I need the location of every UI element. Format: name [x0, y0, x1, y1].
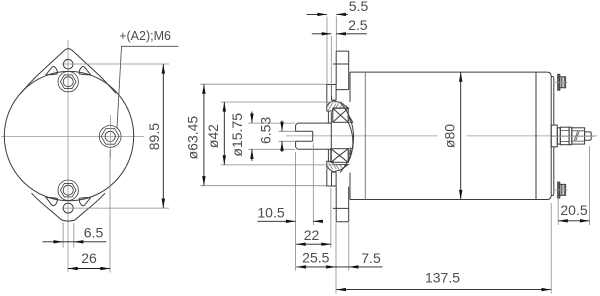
- dim phi80: [442, 72, 463, 199]
- svg-text:ø42: ø42: [205, 124, 221, 148]
- body rear seam: [535, 72, 537, 199]
- ext line slot end: [312, 143, 314, 225]
- dim 89.5 line: [162, 64, 164, 208]
- top wedge hatch: [348, 114, 353, 122]
- dim 6.5 extension lines: [62, 223, 64, 248]
- bottom ear left slot: [46, 198, 57, 206]
- svg-text:6.53: 6.53: [258, 117, 274, 144]
- bottom ear right slot: [79, 198, 90, 206]
- rear cap rim: [551, 77, 554, 196]
- flange plate top ear: [333, 51, 349, 64]
- top pilot hole: [63, 59, 73, 69]
- dim 26 extension right: [109, 150, 111, 273]
- dim phi15.75: [229, 112, 254, 161]
- svg-text:+(A2);M6: +(A2);M6: [119, 29, 171, 43]
- dim 6.53 extensions: [279, 130, 296, 132]
- side view centerline: [286, 135, 438, 137]
- dim 10.5: [257, 205, 323, 223]
- flange hub top face: [327, 85, 336, 124]
- dim phi42: [205, 102, 226, 165]
- bottom hex bolt: [58, 180, 78, 200]
- dim 5.5: [307, 0, 369, 16]
- dim 89.5 extension bottom: [62, 207, 170, 209]
- terminal vertical centerline: [110, 115, 112, 158]
- terminal hex nut (A2): [99, 125, 121, 147]
- ext line hub step below: [330, 188, 332, 248]
- dome outer arc: [340, 102, 354, 172]
- dim 26 line: [68, 268, 110, 270]
- ext line plate front below: [335, 223, 337, 294]
- bottom chamfer hatch band: [327, 161, 348, 171]
- dim 2.5: [312, 17, 368, 36]
- ext lines 20.5: [557, 198, 559, 226]
- svg-text:ø80: ø80: [442, 124, 458, 148]
- dim 6.53: [258, 117, 284, 153]
- dim 26 arrows: [68, 267, 78, 270]
- bottom mounting ear outline: [32, 193, 106, 221]
- dim phi15.75 extensions: [248, 122, 295, 124]
- svg-text:7.5: 7.5: [361, 250, 381, 266]
- dim 137.5: [336, 270, 551, 292]
- leader line for label: [117, 46, 179, 128]
- ext line hub step face: [330, 36, 332, 96]
- bottom bearing block: [331, 149, 348, 163]
- flange plate bottom tab: [333, 208, 349, 221]
- ext line plate rear below: [348, 223, 350, 271]
- flange plate right edge: [336, 51, 349, 222]
- motor body outline: [350, 72, 551, 199]
- svg-text:ø63.45: ø63.45: [185, 116, 201, 160]
- dim 89.5 extension top: [62, 63, 170, 65]
- top chamfer hatch band: [327, 101, 348, 111]
- bottom wedge hatch: [348, 148, 353, 156]
- flange hub bottom face: [327, 149, 336, 186]
- body front seam: [364, 72, 366, 199]
- svg-text:25.5: 25.5: [302, 249, 329, 265]
- flange plate left edge: [335, 51, 337, 222]
- top ear left slot: [46, 66, 57, 74]
- top mounting ear outline: [21, 49, 116, 94]
- svg-text:137.5: 137.5: [425, 270, 460, 286]
- horizontal centerline of front view: [1, 136, 144, 138]
- dim 25.5 and 7.5 shared line: [296, 249, 382, 268]
- svg-text:5.5: 5.5: [349, 0, 369, 14]
- dome inner arc: [348, 122, 353, 162]
- ext line body right below: [550, 203, 552, 294]
- top terminal stud: [554, 74, 568, 90]
- svg-text:26: 26: [81, 250, 97, 266]
- dim 6.5 arrows: [54, 240, 64, 243]
- svg-text:20.5: 20.5: [560, 202, 587, 218]
- top hex bolt: [58, 72, 78, 92]
- B+ terminal assembly: [551, 125, 594, 147]
- motor housing main circle: [4, 71, 133, 200]
- top bearing block: [333, 108, 348, 122]
- dim 6.5 line: [43, 241, 107, 243]
- bottom pilot hole: [63, 203, 73, 213]
- dim 22: [296, 227, 331, 246]
- top ear right slot: [79, 66, 90, 74]
- ext line plate front face top: [335, 17, 337, 52]
- bearing bore edge line: [330, 112, 332, 160]
- vertical centerline of front view: [67, 40, 69, 272]
- ext line hub outer face: [326, 17, 328, 85]
- shaft fork outline: [296, 123, 332, 149]
- bottom terminal stud: [554, 182, 568, 198]
- dim phi63.45 extensions: [200, 83, 326, 85]
- dim 89.5 arrows: [162, 64, 165, 74]
- dim phi63.45: [185, 84, 206, 186]
- svg-text:22: 22: [304, 227, 320, 243]
- dim 20.5: [558, 202, 589, 222]
- svg-text:6.5: 6.5: [84, 224, 104, 240]
- svg-text:2.5: 2.5: [348, 17, 368, 33]
- ext line fork left face: [295, 152, 297, 271]
- svg-text:89.5: 89.5: [146, 123, 162, 150]
- svg-text:ø15.75: ø15.75: [229, 113, 245, 157]
- dim phi42 extensions: [221, 101, 342, 103]
- svg-text:10.5: 10.5: [257, 205, 284, 221]
